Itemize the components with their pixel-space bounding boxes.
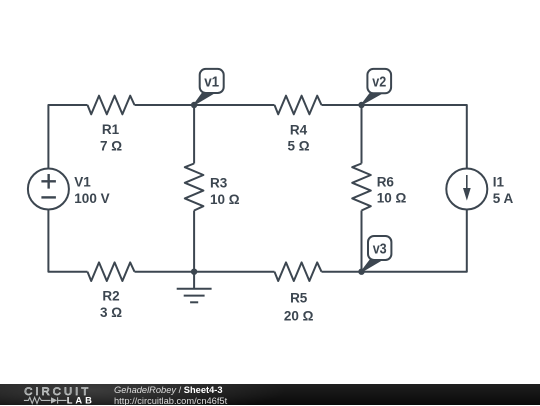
ground junction dot <box>191 269 197 275</box>
svg-text:R6: R6 <box>377 174 395 189</box>
svg-text:5 Ω: 5 Ω <box>287 138 309 153</box>
node v2 callout <box>362 69 391 104</box>
ground <box>177 272 212 303</box>
wire R6 down to node v3 <box>361 211 363 272</box>
resistor R2 <box>88 262 135 281</box>
wire left rail bottom <box>48 210 87 272</box>
svg-text:R1: R1 <box>102 122 120 137</box>
svg-text:20 Ω: 20 Ω <box>284 308 314 323</box>
svg-text:v3: v3 <box>373 241 387 257</box>
node v3 junction dot <box>358 269 364 275</box>
node v2 junction dot <box>358 102 364 108</box>
svg-text:10 Ω: 10 Ω <box>210 192 240 207</box>
svg-text:3 Ω: 3 Ω <box>100 305 122 320</box>
svg-text:10 Ω: 10 Ω <box>377 190 407 205</box>
wire R4 to node v2 to top-right corner down to I1 <box>322 105 467 168</box>
resistor R1 <box>88 96 135 115</box>
svg-text:LAB: LAB <box>67 394 95 405</box>
svg-text:v2: v2 <box>372 74 386 90</box>
wire R5 to node v3 to bottom-right corner up to I1 <box>322 210 467 272</box>
wire R3 down to ground node <box>193 211 195 272</box>
CircuitLab logo <box>0 384 110 405</box>
wire node v2 down to R6 <box>361 105 363 164</box>
svg-text:R3: R3 <box>210 175 228 190</box>
svg-text:R2: R2 <box>102 288 119 303</box>
voltage source V1 <box>28 169 69 210</box>
node v1 callout <box>194 69 224 105</box>
wire left rail top <box>48 105 87 168</box>
resistor R3 <box>185 164 204 211</box>
svg-text:V1: V1 <box>74 174 91 189</box>
resistor R5 <box>275 262 322 281</box>
svg-text:R4: R4 <box>290 122 308 137</box>
wire R1 to node v1 to R4 <box>135 104 275 106</box>
svg-text:5 A: 5 A <box>493 191 514 206</box>
current source I1 <box>446 169 487 210</box>
node v3 callout <box>361 236 391 272</box>
footer bar <box>0 384 540 405</box>
resistor R6 <box>352 164 371 211</box>
wire node v1 down to R3 <box>193 105 195 164</box>
node v1 junction dot <box>191 102 197 108</box>
svg-text:7 Ω: 7 Ω <box>100 138 122 153</box>
svg-text:I1: I1 <box>493 174 505 189</box>
svg-text:100 V: 100 V <box>74 191 109 206</box>
svg-text:v1: v1 <box>204 74 219 90</box>
wire R2 to ground node to R5 <box>135 271 275 273</box>
svg-text:R5: R5 <box>290 290 308 305</box>
resistor R4 <box>275 96 322 115</box>
